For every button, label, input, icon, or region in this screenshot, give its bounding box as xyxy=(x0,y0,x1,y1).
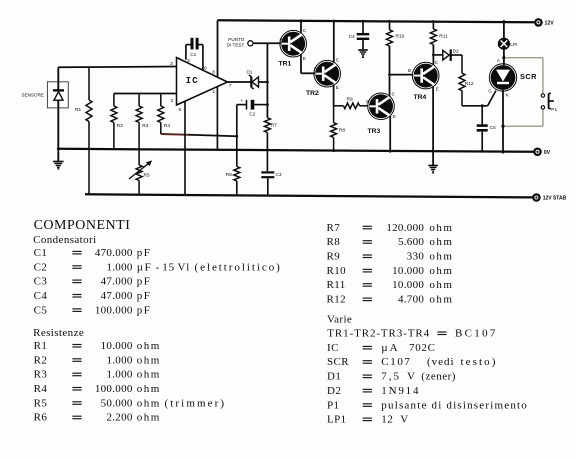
svg-text:7: 7 xyxy=(229,83,232,89)
svg-text:6: 6 xyxy=(204,66,207,72)
svg-text:R12: R12 xyxy=(327,294,347,306)
svg-text:R4: R4 xyxy=(164,123,170,129)
svg-text:C: C xyxy=(303,28,307,33)
svg-text:ohm: ohm xyxy=(429,294,453,306)
svg-text:(elettrolitico): (elettrolitico) xyxy=(195,261,282,273)
svg-text:(vedi: (vedi xyxy=(427,356,455,368)
svg-text:-: - xyxy=(156,261,160,273)
svg-text:TR1: TR1 xyxy=(279,61,292,68)
svg-text:R2: R2 xyxy=(117,123,123,129)
svg-text:pF: pF xyxy=(137,276,152,288)
svg-text:R9: R9 xyxy=(347,96,353,102)
svg-text:1: 1 xyxy=(213,89,216,95)
svg-text:ohm: ohm xyxy=(429,279,453,291)
svg-text:IC: IC xyxy=(186,76,199,86)
svg-text:E: E xyxy=(436,87,439,92)
svg-text:SENSORE: SENSORE xyxy=(22,93,44,98)
svg-text:R12: R12 xyxy=(465,81,474,87)
svg-text:R2: R2 xyxy=(34,354,48,366)
svg-text:testo): testo) xyxy=(461,356,498,368)
svg-text:DI TEST: DI TEST xyxy=(227,43,245,48)
svg-text:0V: 0V xyxy=(544,150,551,156)
svg-text:C3: C3 xyxy=(34,276,48,288)
svg-text:C: C xyxy=(336,58,340,63)
svg-text:ohm: ohm xyxy=(137,340,161,352)
svg-text:C107: C107 xyxy=(381,356,411,368)
svg-text:R6: R6 xyxy=(34,412,48,424)
svg-text:R9: R9 xyxy=(327,251,341,263)
svg-text:R1: R1 xyxy=(75,107,81,113)
svg-text:1.000: 1.000 xyxy=(106,369,132,381)
svg-text:Vl: Vl xyxy=(178,261,191,273)
svg-text:C1: C1 xyxy=(190,52,196,57)
svg-text:SCR: SCR xyxy=(327,356,349,368)
svg-text:SCR: SCR xyxy=(520,72,537,81)
svg-text:C5: C5 xyxy=(490,125,496,130)
svg-text:R11: R11 xyxy=(327,279,346,291)
svg-text:PUNTO: PUNTO xyxy=(228,37,244,42)
svg-text:ohm: ohm xyxy=(137,354,161,366)
svg-text:V: V xyxy=(400,414,408,426)
svg-text:ohm: ohm xyxy=(137,383,161,395)
svg-text:47.000: 47.000 xyxy=(101,276,133,288)
svg-text:R8: R8 xyxy=(339,128,345,134)
svg-text:ohm: ohm xyxy=(137,397,161,409)
svg-text:IC: IC xyxy=(327,342,339,354)
svg-text:R5: R5 xyxy=(34,397,48,409)
svg-text:3: 3 xyxy=(170,61,173,67)
svg-text:R3: R3 xyxy=(34,369,48,381)
svg-text:10.000: 10.000 xyxy=(392,265,424,277)
svg-text:C5: C5 xyxy=(34,304,48,316)
svg-text:C3: C3 xyxy=(276,172,282,177)
svg-text:R1: R1 xyxy=(34,340,48,352)
svg-text:D2: D2 xyxy=(453,49,459,54)
svg-text:LPI: LPI xyxy=(510,42,517,48)
svg-text:pF: pF xyxy=(137,247,152,259)
svg-text:ohm: ohm xyxy=(429,251,453,263)
svg-text:E: E xyxy=(336,85,339,90)
svg-text:Varie: Varie xyxy=(327,313,352,325)
svg-text:4.700: 4.700 xyxy=(398,294,424,306)
svg-text:µF: µF xyxy=(137,261,152,273)
svg-text:ohm: ohm xyxy=(429,265,453,277)
svg-text:C: C xyxy=(435,60,439,65)
svg-text:1.000: 1.000 xyxy=(106,354,132,366)
svg-text:6: 6 xyxy=(179,107,182,113)
svg-text:+: + xyxy=(240,98,243,103)
svg-text:ohm: ohm xyxy=(137,412,161,424)
svg-text:100.000: 100.000 xyxy=(95,304,133,316)
svg-text:C: C xyxy=(392,92,396,97)
svg-text:TR3: TR3 xyxy=(368,128,381,135)
svg-text:R7: R7 xyxy=(271,122,277,128)
svg-text:ohm: ohm xyxy=(137,369,161,381)
svg-text:470.000: 470.000 xyxy=(95,247,133,259)
svg-text:12V: 12V xyxy=(545,21,555,27)
svg-text:G: G xyxy=(488,88,492,93)
svg-text:TR2: TR2 xyxy=(306,90,319,97)
svg-text:µA: µA xyxy=(381,342,399,354)
svg-text:TR1-TR2-TR3-TR4: TR1-TR2-TR3-TR4 xyxy=(327,328,430,340)
svg-text:P1: P1 xyxy=(551,107,557,113)
svg-text:2: 2 xyxy=(171,98,174,104)
svg-text:1N914: 1N914 xyxy=(381,385,420,397)
svg-text:R6: R6 xyxy=(226,172,232,178)
svg-text:C1: C1 xyxy=(34,247,48,259)
svg-text:12: 12 xyxy=(381,414,393,426)
svg-text:C4: C4 xyxy=(349,34,355,39)
svg-text:D1: D1 xyxy=(247,70,253,75)
svg-text:100.000: 100.000 xyxy=(95,383,133,395)
svg-text:330: 330 xyxy=(407,251,425,263)
svg-text:ohm: ohm xyxy=(429,222,453,234)
svg-text:BC107: BC107 xyxy=(455,328,498,340)
svg-text:LP1: LP1 xyxy=(327,414,347,426)
svg-text:2.200: 2.200 xyxy=(106,412,132,424)
svg-text:10.000: 10.000 xyxy=(392,279,424,291)
svg-text:10.000: 10.000 xyxy=(101,340,133,352)
svg-text:COMPONENTI: COMPONENTI xyxy=(34,218,131,233)
svg-text:C2: C2 xyxy=(34,261,48,273)
svg-text:47.000: 47.000 xyxy=(101,290,133,302)
svg-text:pF: pF xyxy=(137,304,152,316)
svg-text:A: A xyxy=(497,58,501,63)
svg-text:K: K xyxy=(506,93,510,98)
svg-text:C4: C4 xyxy=(34,290,48,302)
svg-text:12V STAB: 12V STAB xyxy=(543,196,567,202)
svg-text:B: B xyxy=(280,37,283,42)
svg-text:Resistenze: Resistenze xyxy=(33,327,84,339)
svg-text:pF: pF xyxy=(137,290,152,302)
svg-text:(trimmer): (trimmer) xyxy=(165,397,227,409)
svg-text:R7: R7 xyxy=(327,222,341,234)
svg-text:5.600: 5.600 xyxy=(398,236,424,248)
svg-text:702C: 702C xyxy=(409,342,436,354)
svg-text:TR4: TR4 xyxy=(414,94,427,101)
svg-text:1.000: 1.000 xyxy=(106,261,132,273)
svg-text:R5: R5 xyxy=(144,173,150,179)
svg-text:120.000: 120.000 xyxy=(386,222,424,234)
svg-text:Condensatori: Condensatori xyxy=(33,234,96,246)
svg-text:B: B xyxy=(408,68,411,73)
svg-text:7,5: 7,5 xyxy=(381,371,401,383)
svg-text:B: B xyxy=(366,99,369,104)
svg-text:R11: R11 xyxy=(439,34,448,40)
svg-text:D1: D1 xyxy=(327,371,341,383)
svg-text:R8: R8 xyxy=(327,236,341,248)
svg-text:R4: R4 xyxy=(34,383,48,395)
svg-text:V: V xyxy=(407,371,415,383)
svg-text:pulsante di disinserimento: pulsante di disinserimento xyxy=(381,399,528,411)
svg-text:C2: C2 xyxy=(249,111,255,116)
svg-text:50.000: 50.000 xyxy=(101,397,133,409)
svg-text:8: 8 xyxy=(212,70,215,76)
svg-text:15: 15 xyxy=(162,261,175,273)
svg-text:P1: P1 xyxy=(327,399,339,411)
svg-text:B: B xyxy=(314,67,317,72)
svg-text:E: E xyxy=(303,56,306,61)
svg-text:5: 5 xyxy=(187,58,190,64)
svg-text:R3: R3 xyxy=(142,123,148,129)
svg-text:ohm: ohm xyxy=(429,236,453,248)
svg-text:D2: D2 xyxy=(327,385,341,397)
svg-text:(zener): (zener) xyxy=(421,371,456,383)
svg-text:R10: R10 xyxy=(396,34,405,40)
svg-text:E: E xyxy=(393,114,396,119)
svg-text:R10: R10 xyxy=(327,265,347,277)
